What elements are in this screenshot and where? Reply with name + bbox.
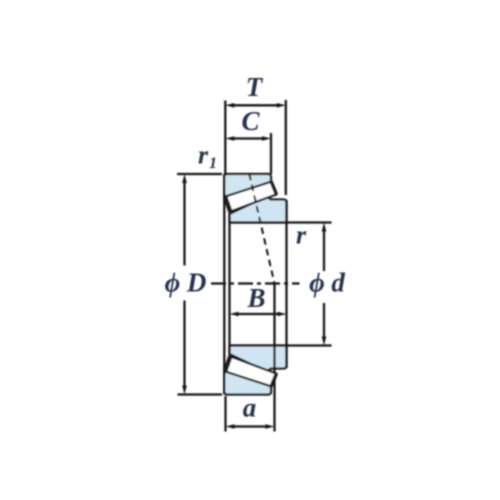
effective load centre extension line for a: [273, 284, 275, 432]
dimension line T: [233, 104, 278, 106]
cone bore bottom line with phi-d extension: [230, 344, 332, 346]
bottom roller big end face (dark): [272, 375, 277, 386]
svg-text:r: r: [296, 221, 307, 250]
dimension line B: [237, 313, 279, 315]
extension line bottom left (phi-D): [178, 393, 223, 395]
svg-text:ϕ d: ϕ d: [309, 268, 345, 298]
extension line top left (r1 / phi-D): [177, 173, 222, 175]
dimension line a: [233, 425, 267, 427]
dimension line phi-d (broken for label): [323, 231, 325, 272]
outer ring (cup) top section: [224, 174, 271, 202]
tapered roller bottom: [225, 356, 277, 386]
svg-text:T: T: [246, 72, 264, 102]
svg-text:a: a: [243, 393, 257, 423]
bottom roller small end face (dark): [225, 357, 230, 372]
dimension line C: [233, 137, 263, 139]
dashed contact (load) line through top roller: [249, 174, 274, 284]
dimension line phi-D (broken for label): [183, 182, 185, 266]
inner ring (cone) top section: [230, 197, 287, 223]
T right extension line: [285, 100, 287, 195]
inner ring (cone) bottom section: [230, 346, 287, 372]
a left extension line: [224, 396, 226, 432]
cone bore top line with phi-d extension: [230, 221, 332, 223]
svg-text:1: 1: [209, 155, 217, 172]
centerline (bearing axis, dash-dot): [211, 282, 300, 284]
svg-text:ϕ D: ϕ D: [165, 268, 207, 298]
tapered roller top: [225, 182, 277, 212]
outer ring (cup) bottom section: [224, 367, 271, 395]
svg-text:C: C: [241, 106, 260, 136]
svg-text:B: B: [246, 283, 265, 313]
top roller small end face (dark): [225, 197, 230, 212]
cone front face silhouette line: [228, 214, 230, 355]
cup back face silhouette line: [223, 174, 225, 395]
cone back face silhouette line: [285, 200, 287, 368]
top roller big end face (dark): [272, 183, 277, 194]
T left extension line: [224, 101, 226, 175]
C right extension line: [270, 133, 272, 174]
svg-text:r: r: [198, 141, 209, 170]
